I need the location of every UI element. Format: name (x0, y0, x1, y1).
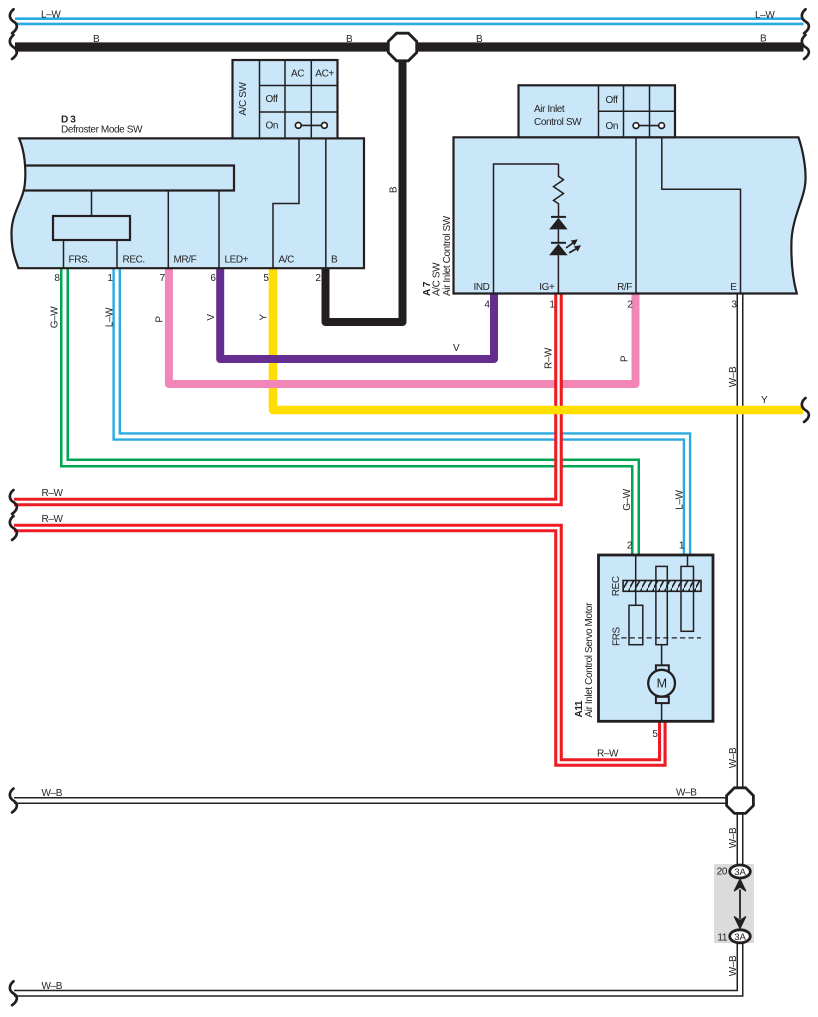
svg-text:L–W: L–W (104, 307, 115, 327)
svg-text:7: 7 (160, 273, 166, 284)
svg-text:Air Inlet Control Servo Motor: Air Inlet Control Servo Motor (584, 602, 595, 718)
svg-text:Control SW: Control SW (534, 117, 582, 128)
svg-text:On: On (266, 121, 279, 132)
svg-text:B: B (346, 34, 353, 45)
svg-text:FRS.: FRS. (69, 255, 90, 266)
svg-text:20: 20 (717, 866, 728, 877)
svg-text:Off: Off (266, 94, 279, 105)
svg-text:R–W: R–W (42, 514, 64, 525)
svg-text:Off: Off (606, 95, 619, 106)
svg-text:Y: Y (761, 395, 768, 406)
svg-text:W–B: W–B (42, 981, 63, 992)
svg-text:L–W: L–W (674, 489, 685, 509)
svg-text:B: B (331, 255, 338, 266)
svg-text:E: E (730, 282, 737, 293)
svg-text:5: 5 (263, 273, 269, 284)
svg-text:W–B: W–B (728, 955, 739, 976)
svg-text:W–B: W–B (676, 788, 697, 799)
svg-text:2: 2 (627, 300, 633, 311)
svg-text:Air Inlet: Air Inlet (534, 104, 565, 115)
svg-text:8: 8 (54, 273, 60, 284)
svg-text:V: V (206, 314, 217, 321)
svg-text:B: B (389, 186, 400, 193)
svg-text:L–W: L–W (755, 10, 775, 21)
svg-text:Air Inlet Control SW: Air Inlet Control SW (442, 215, 453, 296)
svg-text:Y: Y (259, 314, 270, 321)
svg-text:M: M (657, 677, 667, 691)
svg-text:A/C: A/C (279, 255, 295, 266)
svg-text:R/F: R/F (617, 282, 632, 293)
svg-text:W–B: W–B (728, 827, 739, 848)
svg-text:11: 11 (717, 932, 727, 943)
svg-text:3A: 3A (734, 867, 746, 878)
svg-text:V: V (453, 343, 460, 354)
svg-text:4: 4 (484, 300, 490, 311)
svg-text:1: 1 (679, 541, 685, 552)
svg-text:P: P (154, 316, 165, 323)
svg-text:FRS: FRS (611, 626, 622, 646)
svg-text:On: On (606, 121, 619, 132)
svg-text:W–B: W–B (728, 747, 739, 768)
svg-text:B: B (476, 34, 483, 45)
svg-text:L–W: L–W (41, 10, 61, 21)
svg-text:W–B: W–B (728, 366, 739, 387)
svg-text:G–W: G–W (50, 306, 61, 329)
svg-text:IND: IND (473, 282, 489, 293)
svg-text:3: 3 (731, 300, 737, 311)
svg-text:R–W: R–W (42, 488, 64, 499)
svg-text:P: P (620, 355, 631, 362)
svg-text:2: 2 (315, 273, 321, 284)
svg-text:B: B (760, 34, 767, 45)
svg-text:REC.: REC. (123, 255, 145, 266)
svg-text:A/C SW: A/C SW (432, 262, 443, 296)
svg-text:MR/F: MR/F (174, 255, 197, 266)
svg-text:IG+: IG+ (539, 282, 555, 293)
svg-text:2: 2 (627, 541, 633, 552)
svg-text:5: 5 (652, 729, 658, 740)
svg-text:W–B: W–B (42, 788, 63, 799)
svg-text:LED+: LED+ (225, 255, 249, 266)
svg-text:G–W: G–W (622, 488, 633, 511)
svg-text:R–W: R–W (597, 749, 619, 760)
svg-text:6: 6 (210, 273, 216, 284)
svg-text:3A: 3A (734, 932, 746, 943)
svg-text:Defroster Mode SW: Defroster Mode SW (61, 125, 143, 136)
svg-text:1: 1 (107, 273, 113, 284)
svg-text:AC: AC (291, 69, 304, 80)
svg-text:R–W: R–W (544, 347, 555, 369)
svg-text:AC+: AC+ (315, 69, 334, 80)
svg-text:A/C SW: A/C SW (238, 81, 249, 115)
svg-text:B: B (93, 34, 100, 45)
svg-text:REC: REC (611, 576, 622, 596)
svg-text:1: 1 (549, 300, 555, 311)
